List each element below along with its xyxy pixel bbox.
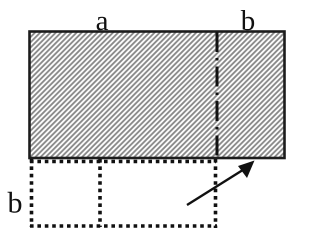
arrow [187,161,255,206]
dotted divider [98,159,102,227]
svg-text:b: b [8,187,23,220]
svg-text:a: a [96,5,109,37]
svg-text:b: b [241,5,256,37]
dotted top edge [30,160,216,164]
dotted left edge [30,159,34,227]
dotted square b x b (left cell) + right cell [30,159,217,228]
hatched rectangle (a x ?) [30,32,285,159]
dotted right edge [214,159,218,228]
dotted bottom edge [30,224,217,228]
dash-dot divider line [216,32,219,158]
